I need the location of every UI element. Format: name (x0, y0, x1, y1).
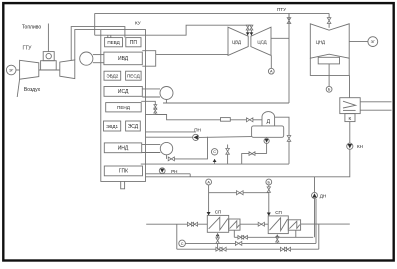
svg-text:К: К (349, 116, 352, 121)
wire ПЕНД outlet (141, 101, 155, 105)
wire air inlet (17, 79, 19, 97)
wire exhaust duct inner (75, 30, 101, 60)
boiler section ПЕВД (105, 38, 123, 47)
boiler section ЭВД2 (104, 71, 121, 80)
valve ЦНД inlet (327, 13, 331, 27)
valve СП1-СП2 link (258, 222, 264, 226)
svg-text:ЭВД2: ЭВД2 (106, 74, 118, 79)
wire network bypass down (176, 224, 178, 249)
wire condensate from КН (146, 149, 350, 177)
valve ГПК-Д riser (287, 136, 291, 142)
node Б supply (266, 179, 272, 185)
drain cooler СП1 (229, 219, 240, 230)
wire С return line (185, 242, 316, 244)
wire ИСД to drum СД (142, 89, 160, 97)
drum СД (160, 87, 173, 100)
node А supply (206, 179, 212, 185)
drain СП2 (275, 235, 279, 244)
valve С return (235, 241, 241, 245)
wire ИВД steam header box (142, 51, 155, 66)
label Топливо (22, 25, 41, 31)
stop valve ЦСД (250, 25, 254, 36)
label Воздух (24, 87, 41, 93)
combustion chamber KC (43, 52, 54, 61)
deaerator column Д (262, 112, 275, 126)
label ПН (194, 128, 201, 133)
wire РН line (146, 174, 191, 177)
boiler section ИНД (104, 143, 141, 153)
wire deaerator steam pipe (275, 117, 289, 164)
wire ГПК outlet line (141, 163, 289, 165)
valve crossover 1 (287, 13, 291, 24)
wire drain loop (242, 144, 267, 164)
svg-text:ЭСД: ЭСД (128, 124, 139, 130)
svg-text:ЦВД: ЦВД (232, 40, 241, 45)
boiler section ЭВД1 (104, 121, 121, 131)
wire А to СП1 (207, 185, 211, 216)
valve makeup (226, 145, 230, 164)
boiler section ЭСД (126, 121, 141, 131)
svg-text:ЦНД: ЦНД (316, 40, 325, 45)
wire steam line ПТУ (95, 12, 329, 14)
svg-text:Воздух: Воздух (24, 87, 41, 93)
wire cooling water lines (360, 102, 391, 110)
wire shaft GT generator (16, 69, 20, 71)
turbine ЦСД (251, 27, 271, 55)
wire ИНД to drum НД (142, 145, 161, 153)
node С return (179, 240, 186, 247)
node С makeup (211, 149, 217, 164)
wire ПН suction (199, 136, 252, 139)
drum НД (160, 142, 172, 154)
valve deaerator inlet (247, 118, 263, 122)
svg-text:ПТУ: ПТУ (277, 7, 286, 12)
combustion chamber support (41, 61, 57, 70)
wire ЦНД to condenser (349, 75, 351, 97)
svg-text:СП: СП (275, 210, 282, 215)
wire tank drain pump leg (266, 137, 268, 138)
wire bottom bypass (177, 224, 319, 249)
stop valve ЦВД (246, 25, 250, 36)
svg-text:А: А (270, 70, 273, 74)
wire drum НД blowdown (167, 137, 208, 161)
wire drum ВД to ИВД (93, 55, 104, 63)
wire steam to deaerator drop (288, 13, 290, 103)
svg-text:ЭГ: ЭГ (371, 40, 375, 44)
node А extraction ЦСД (268, 55, 274, 74)
label ГТУ (23, 46, 33, 52)
valve bottom bypass 1 (216, 247, 226, 251)
svg-text:С: С (181, 242, 184, 246)
compressor K (20, 60, 39, 79)
svg-text:ПЕНД: ПЕНД (117, 105, 131, 110)
boiler section ИСД (104, 87, 142, 97)
wire А-Б tie (209, 192, 269, 194)
gas turbine T (60, 60, 75, 79)
wire network water inlet (146, 223, 207, 225)
valve ПЕНД double (154, 105, 157, 115)
wire drain cooler 1 leg (234, 230, 313, 237)
pump ПН (193, 134, 199, 140)
svg-text:Топливо: Топливо (22, 25, 41, 31)
valve network inlet (187, 222, 197, 226)
boiler section ГПК (104, 166, 142, 176)
heater СП2 (268, 210, 288, 234)
hotwell К (345, 114, 355, 122)
wire ПН discharge (146, 132, 197, 137)
wire ЦСД exhaust (271, 37, 289, 39)
wire drain cooler 2 leg (295, 230, 297, 237)
svg-text:КУ: КУ (135, 21, 141, 26)
drum ВД (80, 52, 93, 65)
boiler KU box (101, 30, 146, 182)
generator ЭГ2 (steam turbine) (349, 37, 377, 47)
wire cold reheat (156, 54, 228, 56)
generator ЭГ1 (gas turbine) (6, 65, 16, 75)
orifice РОУ (221, 118, 231, 122)
svg-text:ПЕСД: ПЕСД (127, 74, 141, 79)
valve bottom bypass 2 (280, 247, 290, 251)
pump deaerator drain (264, 138, 269, 143)
svg-text:ЭГ: ЭГ (9, 69, 13, 73)
boiler section ИВД (104, 52, 142, 65)
pump ДН (312, 177, 318, 237)
wire crossover riser (94, 13, 96, 35)
label КН (357, 144, 363, 149)
drain СП1 (216, 233, 220, 249)
svg-text:ПП: ПП (130, 40, 138, 46)
drain cooler СП2 (288, 220, 300, 230)
label ПТУ (277, 7, 286, 12)
wire exhaust duct outer (71, 27, 125, 61)
label ДН (320, 193, 326, 198)
pump КН (347, 143, 353, 149)
svg-text:СП: СП (215, 209, 222, 214)
svg-text:ПЕВД: ПЕВД (107, 40, 120, 45)
node Б extraction ЦНД (326, 64, 332, 92)
wire shaft GT (39, 69, 60, 71)
wire К to КН (349, 122, 351, 143)
wire fuel line (47, 24, 49, 52)
deaerator tank (252, 126, 284, 137)
turbine ЦНД (310, 24, 349, 58)
wire network water outlet (301, 223, 350, 225)
label КУ (135, 21, 141, 26)
svg-text:ИВД: ИВД (118, 56, 129, 62)
svg-text:РН: РН (171, 169, 177, 174)
valve drain cooler 1 (238, 236, 248, 240)
svg-text:ЭВД1: ЭВД1 (106, 124, 118, 129)
boiler section ПП (126, 38, 141, 47)
svg-text:ГТУ: ГТУ (23, 46, 33, 52)
wire СП1-СП2 link (240, 223, 268, 225)
boiler section ПЕНД (106, 103, 142, 112)
label РН (171, 169, 177, 174)
wire main steam line (95, 25, 253, 35)
svg-text:ЦСД: ЦСД (257, 40, 266, 45)
wire СД steam line (163, 100, 289, 104)
condenser (340, 98, 360, 114)
svg-text:КН: КН (357, 144, 363, 149)
chimney (121, 181, 125, 188)
pump РН (159, 168, 165, 174)
heater СП1 (207, 209, 228, 232)
turbine ЦВД (228, 27, 248, 55)
wire ДН suction 2 (315, 199, 317, 243)
valve Б line (267, 185, 271, 216)
svg-text:ИСД: ИСД (118, 89, 129, 95)
svg-text:С: С (213, 150, 216, 154)
valve А-Б tie (237, 191, 244, 195)
wire ПЕНД to deaerator line (146, 115, 247, 120)
svg-text:ДН: ДН (320, 193, 326, 198)
svg-text:ИНД: ИНД (118, 146, 129, 152)
boiler section ПЕСД (126, 71, 142, 80)
turbine ЦНД exhaust box (310, 57, 349, 75)
wire main steam riser (108, 35, 111, 37)
svg-text:ГПК: ГПК (119, 169, 128, 175)
